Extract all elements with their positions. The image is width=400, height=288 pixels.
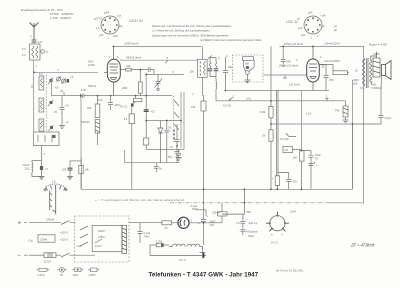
svg-text:560: 560 — [287, 60, 292, 64]
svg-text:125V≈: 125V≈ — [98, 235, 106, 239]
screen wire tube1 to IF1 — [120, 56, 197, 61]
shielded pair down — [272, 91, 280, 190]
mains filter cap — [129, 223, 159, 243]
svg-text:≈125: ≈125 — [76, 244, 82, 248]
svg-text:Ca.: Ca. — [29, 239, 34, 243]
svg-text:1,3k: 1,3k — [81, 88, 87, 92]
top rail corner down to transformer — [363, 46, 365, 203]
band coil box I — [39, 72, 44, 90]
svg-text:aT: aT — [96, 26, 99, 30]
svg-text:(L): (L) — [334, 24, 337, 28]
svg-text:Spannungen sind mit Instrument: Spannungen sind mit Instrument 333Ω/V, 3… — [152, 33, 229, 37]
antenna trimmer cap C — [41, 50, 49, 54]
grid cap 560 — [281, 46, 292, 66]
tuning line — [52, 91, 173, 95]
cathode resistor 100 — [293, 151, 305, 190]
svg-text:g1H: g1H — [113, 34, 118, 38]
svg-text:ZF = 473kHz: ZF = 473kHz — [350, 243, 374, 248]
series link cap — [81, 88, 103, 102]
svg-text:15k: 15k — [191, 105, 196, 109]
detector dashed box — [233, 55, 264, 82]
svg-text:g1T: g1T — [99, 33, 104, 37]
heater return line — [150, 245, 206, 262]
svg-text:28V(+)/2,3mA: 28V(+)/2,3mA — [278, 64, 298, 68]
IF1 tuned branch B — [210, 56, 221, 77]
svg-text:g2T+H: g2T+H — [94, 17, 102, 21]
wave band cap + ground — [54, 96, 69, 128]
svg-text:500mA: 500mA — [88, 84, 96, 88]
rail A left riser — [80, 157, 82, 189]
measurement notes text — [152, 24, 262, 42]
svg-text:1,5: 1,5 — [236, 221, 240, 225]
svg-text:600: 600 — [353, 82, 358, 86]
B+ rail A — [81, 124, 352, 189]
cathode cap +25V — [108, 96, 120, 110]
band coil box II — [39, 98, 44, 112]
smoothing caps pair — [236, 214, 258, 238]
svg-text:110V: 110V — [73, 273, 79, 277]
diode part — [158, 121, 163, 163]
svg-text:L 148 - 420kHz: L 148 - 420kHz — [50, 16, 71, 20]
B+ top rail right — [280, 45, 364, 47]
ground left — [67, 176, 73, 179]
svg-text:Spannungs- und Stromwerte bei: Spannungs- und Stromwerte bei max. Stell… — [152, 24, 232, 28]
osc coil resistor 15k — [191, 93, 206, 190]
svg-text:24mH: 24mH — [23, 163, 30, 167]
svg-text:96V/3,5mA: 96V/3,5mA — [126, 56, 141, 60]
shielded pair verticals — [179, 92, 185, 150]
svg-text:100: 100 — [293, 156, 298, 160]
svg-text:3,17: 3,17 — [38, 40, 44, 44]
svg-text:VY 2: VY 2 — [271, 241, 278, 245]
heater chain resistor 1,2W — [150, 240, 169, 247]
tone cap 0,5uF — [353, 76, 392, 125]
svg-text:0,5μF: 0,5μF — [385, 116, 392, 120]
IF1 bottom coil — [215, 77, 218, 101]
svg-text:6μF mp: 6μF mp — [249, 221, 258, 225]
cap 0,1uF 700V upper PSU — [191, 204, 207, 216]
svg-text:20M: 20M — [122, 86, 127, 90]
coupling cap 0,1uF — [280, 133, 302, 153]
svg-text:mit 60kΩ/V Instrument entsprec: mit 60kΩ/V Instrument entsprechend gerin… — [200, 38, 262, 42]
svg-text:↑: ↑ — [272, 182, 273, 185]
svg-text:700V: 700V — [192, 207, 198, 211]
svg-text:10F: 10F — [62, 168, 67, 172]
cap 27 column — [144, 96, 156, 150]
feedback resistor + ground right — [326, 95, 349, 123]
antenna — [30, 23, 39, 31]
svg-text:(0,65): (0,65) — [88, 63, 95, 67]
triode-hexode tube UCH11 — [107, 59, 120, 82]
svg-text:Al Expand: Al Expand — [246, 230, 258, 234]
svg-text:g3/4: g3/4 — [104, 11, 110, 15]
svg-text:150: 150 — [190, 70, 195, 74]
rail B dash-dot — [170, 202, 330, 204]
switch contacts — [50, 79, 56, 138]
speaker labels — [369, 43, 387, 91]
svg-text:10k: 10k — [85, 168, 90, 172]
anode wire tube1 to IF1 — [114, 45, 202, 47]
svg-text:~250V: ~250V — [88, 273, 96, 277]
svg-text:0,7μ: 0,7μ — [246, 97, 252, 101]
svg-text:25V: 25V — [209, 223, 215, 227]
svg-text:0,1μF: 0,1μF — [144, 231, 151, 235]
detector diode circle — [244, 60, 255, 80]
svg-text:+ aH: + aH — [320, 14, 326, 18]
svg-text:250: 250 — [329, 78, 334, 82]
rectifier socket VY2 — [270, 216, 285, 231]
caps column mid — [168, 124, 180, 163]
speaker field coil — [371, 52, 380, 78]
svg-text:225mA: 225mA — [212, 210, 220, 214]
svg-text:25μF: 25μF — [248, 234, 254, 238]
svg-text:+500/: +500/ — [352, 78, 359, 82]
svg-text:7x5/60Ω: 7x5/60Ω — [371, 86, 381, 90]
feedback tap symbol — [216, 95, 346, 108]
IF1 tuned branch A — [208, 56, 213, 77]
tube socket diagram UCH11 — [101, 16, 119, 34]
bypass cap 50V — [277, 172, 297, 189]
dial lamp — [172, 217, 204, 228]
svg-text:1/0,1μF: 1/0,1μF — [280, 137, 289, 141]
svg-text:1,5V: 1,5V — [306, 112, 312, 116]
svg-text:55V: 55V — [247, 210, 252, 214]
svg-text:400: 400 — [87, 106, 92, 110]
svg-text:0,23 A: 0,23 A — [44, 260, 52, 264]
lamp series resistor — [159, 221, 172, 230]
band switch fan — [44, 180, 67, 215]
svg-text:50n: 50n — [168, 155, 173, 159]
detector resistor — [243, 57, 254, 66]
rail labels — [124, 42, 341, 46]
svg-text:700V: 700V — [144, 235, 150, 239]
output tube UCL11 — [307, 59, 320, 82]
IF transformer 1 primary box — [190, 46, 208, 95]
osc anode resistor 5W — [120, 64, 154, 74]
svg-text:18,3mA: 18,3mA — [289, 83, 300, 87]
svg-text:≈110 V: ≈110 V — [60, 231, 68, 235]
svg-text:5W: 5W — [126, 64, 130, 68]
antenna coil box — [22, 42, 40, 60]
svg-text:≈27: ≈27 — [151, 109, 156, 113]
cathode branch tube2 — [302, 91, 312, 151]
svg-text:45V/: 45V/ — [88, 60, 94, 64]
electrolytic 25uF — [198, 189, 220, 245]
line to detector row — [146, 120, 181, 122]
output transformer — [355, 58, 372, 91]
svg-text:1,0: 1,0 — [52, 180, 56, 184]
dropper winding — [122, 226, 127, 254]
svg-text:112V≈: 112V≈ — [95, 244, 103, 248]
power rating box — [29, 231, 69, 243]
TA-LS jack — [120, 96, 142, 109]
svg-text:( ) = Werte bei min. Stellung: ( ) = Werte bei min. Stellung des Lautst… — [152, 29, 211, 33]
tube socket diagram UCL11 — [304, 16, 322, 34]
svg-text:9V: 9V — [60, 273, 63, 277]
svg-text:0,25 A: 0,25 A — [38, 273, 46, 277]
band table text — [21, 8, 74, 20]
svg-text:TF1: TF1 — [360, 87, 365, 91]
svg-text:100: 100 — [228, 65, 233, 69]
heater dropper box — [204, 203, 228, 223]
svg-text:0,1: 0,1 — [30, 84, 34, 88]
svg-text:40Ω: 40Ω — [371, 83, 376, 87]
svg-text:20VA: 20VA — [40, 238, 48, 242]
band coil box III — [39, 119, 44, 131]
svg-text:225mA: 225mA — [46, 218, 54, 222]
antenna trimmer pair — [55, 75, 74, 93]
svg-text:UCH 11: UCH 11 — [129, 18, 143, 23]
tube2 labels — [289, 55, 322, 87]
svg-text:+ ↑ 7 Leitungen und Werte von: + ↑ 7 Leitungen und Werte von der Serie … — [95, 198, 184, 202]
svg-text:g2C: g2C — [308, 11, 313, 15]
dropper resistor 400 — [81, 96, 100, 145]
RC row mid — [125, 150, 180, 163]
svg-text:50μF: 50μF — [315, 153, 321, 157]
ground wave trap — [39, 176, 45, 179]
coupling vertical 100 — [223, 54, 232, 91]
PSU dashed box — [75, 216, 129, 262]
svg-text:6V: 6V — [315, 157, 318, 161]
B+ feed corner — [222, 189, 296, 214]
cap 50 — [164, 121, 171, 163]
detector ground — [244, 80, 250, 83]
B+ vertical from speaker field — [352, 80, 354, 189]
mains terminal bottom + fuse — [18, 253, 95, 264]
wire antenna down — [34, 60, 38, 72]
tuning gang dashed link — [173, 96, 175, 128]
osc grid line — [146, 70, 184, 95]
mains terminal top — [18, 218, 75, 225]
svg-text:≈120 V: ≈120 V — [60, 237, 68, 241]
fixed cap 47 — [40, 166, 49, 176]
switch contact dashes — [46, 75, 48, 132]
svg-text:4,5: 4,5 — [65, 104, 69, 108]
svg-text:4,5: 4,5 — [55, 86, 59, 90]
padder trimmer cap — [155, 74, 163, 90]
svg-text:TA–LS: TA–LS — [120, 105, 128, 109]
fuse legend icons — [37, 267, 100, 277]
cap 3n — [154, 163, 163, 172]
svg-text:185V/2mA: 185V/2mA — [124, 42, 138, 46]
screen line tap 6 — [166, 56, 169, 63]
wave trap branch — [32, 146, 46, 167]
svg-text:0,4: 0,4 — [22, 47, 26, 51]
svg-text:ab Gerät Nr 351/051: ab Gerät Nr 351/051 — [276, 269, 304, 273]
svg-text:10V: 10V — [98, 98, 103, 102]
svg-text:220V≈: 220V≈ — [98, 229, 106, 233]
svg-text:PW: PW — [335, 109, 340, 113]
anode RC right of tube2 — [319, 59, 349, 91]
pair end cap + ground — [176, 150, 181, 158]
svg-text:15mA/215V: 15mA/215V — [324, 42, 341, 46]
grid wire tube1 — [34, 69, 98, 73]
svg-text:5M: 5M — [245, 62, 249, 66]
svg-text:1,2W: 1,2W — [156, 240, 163, 244]
wave switch frame box — [34, 132, 60, 146]
voltage selector box — [76, 226, 122, 252]
grid stopper to output stage — [307, 90, 329, 92]
svg-text:1K: 1K — [355, 69, 358, 73]
svg-text:2,0: 2,0 — [169, 145, 173, 149]
decoupling resistor 10k — [79, 165, 90, 189]
svg-text:M: M — [63, 91, 65, 95]
tube1 value labels — [88, 55, 119, 88]
decoupling cap 10n — [62, 161, 73, 176]
svg-text:g1L: g1L — [301, 33, 306, 37]
svg-text:R geo = 4,5Ω: R geo = 4,5Ω — [369, 43, 387, 47]
cathode bypass cap 50uF — [302, 151, 322, 190]
antenna series cap — [30, 31, 43, 45]
svg-text:28V(+)/0,3mA: 28V(+)/0,3mA — [283, 42, 303, 46]
svg-text:160V: 160V — [290, 210, 296, 214]
loudspeaker — [382, 61, 392, 80]
svg-text:VY 2: VY 2 — [179, 258, 186, 262]
svg-text:UCL 11: UCL 11 — [286, 20, 298, 24]
svg-text:aH: aH — [119, 24, 122, 28]
AVC divider column — [260, 46, 274, 189]
svg-text:50V: 50V — [293, 180, 298, 184]
notes line bottom — [95, 198, 184, 202]
svg-text:3,5: 3,5 — [124, 117, 128, 121]
svg-text:μF: μF — [333, 28, 337, 32]
heater windings — [169, 244, 202, 252]
svg-text:12mA/180V: 12mA/180V — [324, 59, 341, 63]
svg-text:0,1M: 0,1M — [260, 110, 266, 114]
AVC line — [264, 64, 307, 79]
svg-text:g1C: g1C — [298, 26, 303, 30]
svg-text:4,5–30: 4,5–30 — [223, 104, 231, 108]
svg-text:5W/NiC: 5W/NiC — [81, 120, 90, 124]
svg-text:2,2: 2,2 — [22, 53, 26, 57]
switch column riser — [51, 78, 53, 96]
cathode line tube2 — [225, 90, 306, 92]
resistor 3,5 — [124, 107, 135, 190]
grid leak resistor 20M — [122, 70, 142, 96]
screen feed line — [271, 123, 353, 125]
coil 24mH — [23, 162, 42, 176]
transformer feed labels — [352, 78, 359, 86]
AVC decoupling riser — [70, 96, 81, 166]
antenna lead lower — [30, 72, 34, 132]
svg-text:22Ω: 22Ω — [25, 167, 30, 171]
svg-text:Telefunken - T 4347 GWK - Jahr: Telefunken - T 4347 GWK - Jahr 1947 — [149, 272, 259, 279]
